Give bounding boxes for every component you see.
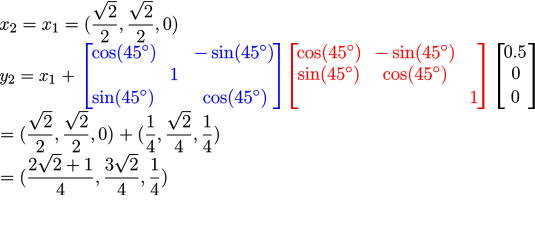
line3a [1, 111, 112, 152]
v_zero3 [512, 90, 519, 102]
vecL [498, 43, 505, 109]
y2x1 [0, 73, 54, 84]
vecR [528, 43, 535, 109]
blueR [273, 43, 280, 109]
b_sin3 [93, 89, 153, 108]
redR [478, 43, 485, 109]
v_half [504, 45, 525, 57]
line3b [120, 111, 219, 152]
plus [63, 71, 74, 82]
blueL [86, 43, 93, 109]
v_zero2 [512, 67, 519, 79]
b_msin1 [195, 44, 272, 63]
r_sin2 [298, 66, 358, 85]
r_msin1 [376, 44, 453, 63]
r_one [471, 91, 477, 103]
redL [291, 43, 298, 109]
line1 [0, 1, 177, 42]
b_cos3 [203, 89, 266, 108]
b_cos1 [92, 44, 155, 63]
r_cos2 [383, 66, 446, 85]
r_cos1 [297, 44, 360, 63]
b_one [171, 68, 177, 80]
line4 [1, 154, 166, 195]
